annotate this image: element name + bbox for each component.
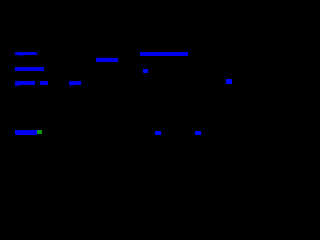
P1 left nub — [155, 132, 156, 134]
row C seg3 — [69, 81, 81, 85]
bottom green text G — [37, 130, 42, 134]
bottom blue bar D — [15, 130, 38, 135]
small square S1 — [143, 69, 149, 73]
row C seg2 — [40, 81, 48, 85]
link bar B (left col row2) — [15, 67, 44, 71]
pagination square P1 — [155, 131, 161, 135]
descender of A — [18, 55, 24, 56]
link bar A (left col row1) — [15, 52, 37, 56]
pagination square P2 — [195, 131, 201, 136]
link bar T (top middle long) — [140, 52, 188, 56]
row C seg1 — [15, 81, 36, 85]
row C seg3 descender — [70, 85, 73, 86]
small square S2 — [226, 79, 233, 84]
link text M1 (middle, with ascenders) — [96, 58, 118, 63]
row C seg1 descender — [15, 85, 20, 86]
